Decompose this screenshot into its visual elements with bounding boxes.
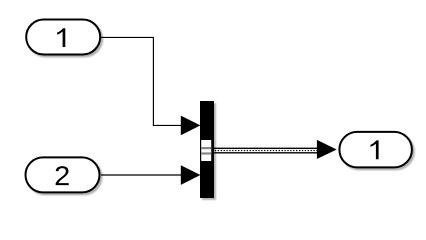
inport In2 xyxy=(26,157,100,192)
bus creator icon xyxy=(201,140,211,161)
wire In1 to Bus Creator xyxy=(101,37,200,135)
inport In1 xyxy=(26,20,100,55)
wire In2 to Bus Creator xyxy=(101,165,200,185)
bus wire Bus Creator to Out1 xyxy=(214,140,337,159)
bus creator U1 xyxy=(200,101,214,198)
outport Out1 xyxy=(339,132,412,168)
